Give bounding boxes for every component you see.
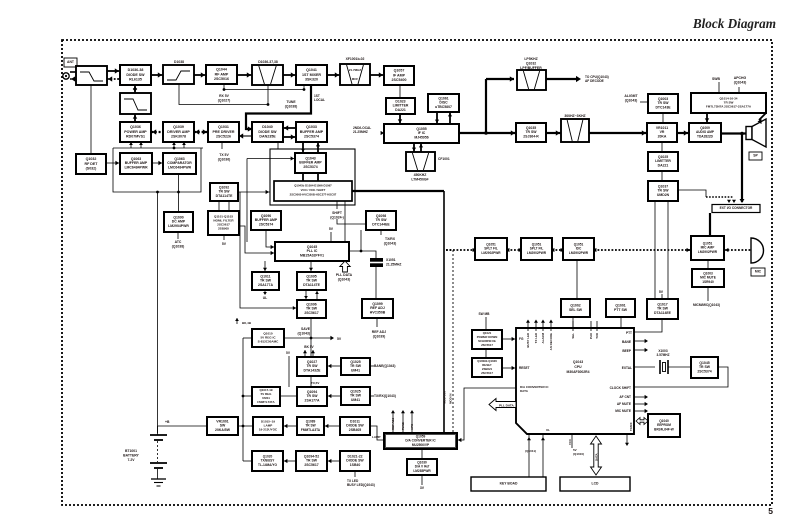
block buffer amp Q1033 — [296, 122, 327, 142]
arrow into mixer — [291, 72, 295, 77]
svg-text:TR SW: TR SW — [350, 364, 362, 368]
block tr sw Q1037 — [648, 181, 678, 201]
svg-text:1ST MIXER: 1ST MIXER — [302, 73, 321, 77]
arrow into ific left — [381, 131, 384, 135]
arrow aa1 — [473, 248, 476, 252]
arrow aa5 — [561, 248, 564, 252]
arrow a10 — [301, 149, 305, 152]
svg-text:VCO / VXO / SHIFT: VCO / VXO / SHIFT — [301, 188, 326, 192]
svg-text:7.2V: 7.2V — [128, 458, 136, 462]
arrow into q1031 — [239, 133, 243, 138]
antenna connector — [63, 73, 69, 79]
wire d1036-d1038 — [151, 74, 163, 76]
block tr sw Q1014-16-34 — [691, 93, 766, 113]
wire q1039-q1036 dotted — [194, 131, 208, 133]
wire 5v-pll — [330, 232, 332, 242]
block tr sw Q1096 — [297, 300, 326, 318]
svg-text:TR SW: TR SW — [306, 279, 318, 283]
label +B — [165, 420, 170, 424]
wire wide dn amp — [706, 113, 708, 123]
dac pin APC — [411, 412, 413, 433]
label 3V — [420, 486, 425, 490]
block 5v reg Q1010 — [252, 329, 284, 347]
wire mixer-mcf — [327, 74, 340, 76]
arrow a20 — [325, 424, 328, 428]
svg-text:Q1025: Q1025 — [350, 389, 360, 393]
block driver amp Q1039 — [163, 122, 194, 142]
svg-text:AN DECODE: AN DECODE — [549, 333, 553, 350]
wire q1089-d1011 — [324, 425, 340, 427]
svg-text:HVC350B: HVC350B — [370, 311, 386, 315]
svg-text:ALARM: ALARM — [541, 332, 545, 343]
wire affil-vr — [589, 132, 647, 134]
block volume VR1001 — [207, 417, 238, 435]
label TX/RX (Q1043) q1098 — [384, 237, 396, 245]
svg-text:1SB40: 1SB40 — [350, 463, 361, 467]
svg-text:450KHZ: 450KHZ — [414, 173, 427, 177]
wire q1021-cpu — [502, 338, 516, 340]
wire vcc dn — [571, 434, 573, 448]
svg-text:(S032): (S032) — [86, 166, 98, 170]
wire wideblock diag to speaker — [759, 113, 766, 120]
wire vref dn — [421, 475, 423, 485]
svg-text:SEL SW: SEL SW — [569, 308, 583, 312]
block diode sw D1036-38 — [120, 65, 151, 85]
block limiter Q1025 — [648, 152, 678, 171]
block tx/busy Q1020 — [252, 451, 283, 471]
svg-text:+B: +B — [165, 420, 170, 424]
svg-text:LM285PWR: LM285PWR — [413, 469, 431, 473]
svg-text:RL6135: RL6135 — [129, 77, 142, 81]
svg-text:Q1063: Q1063 — [131, 157, 141, 161]
svg-text:TL-14MA/YO: TL-14MA/YO — [258, 463, 277, 467]
svg-text:M30AF3002R4: M30AF3002R4 — [567, 370, 590, 374]
svg-text:DTC143E: DTC143E — [655, 106, 671, 110]
arrow diag — [758, 119, 762, 124]
wire bus-lamp — [243, 425, 253, 427]
svg-text:5: 5 — [768, 506, 773, 516]
wire vco out line — [352, 190, 444, 192]
svg-text:LM2904PWR: LM2904PWR — [168, 224, 189, 228]
arrow aa3 — [519, 248, 522, 252]
svg-text:LAMP: LAMP — [372, 435, 381, 439]
filter tuned filter D1036-37,38 — [252, 65, 283, 85]
label D/A CONVERTER IC DATA — [520, 385, 549, 393]
wire apchg dn — [738, 87, 740, 93]
wire vr-lim — [661, 142, 663, 152]
label UL cpu — [546, 428, 550, 432]
block tr sw Q1027 — [297, 357, 327, 376]
cpu pin BUSY LED — [527, 321, 529, 331]
arrow a30 — [576, 76, 581, 82]
svg-text:Q1045: Q1045 — [307, 245, 317, 249]
svg-text:LM2902PWR: LM2902PWR — [698, 250, 718, 254]
arrow a40 — [625, 443, 629, 446]
label SW MB — [479, 312, 491, 316]
label 2ND/LOCAL 21.25MHZ — [353, 126, 371, 134]
wire d1021 dn — [354, 471, 356, 477]
label PLL DATA (Q1043) — [336, 273, 353, 281]
label TX/RX(Q1043) — [374, 394, 396, 398]
svg-text:19-213UYOC: 19-213UYOC — [259, 428, 278, 432]
arrow a43 — [541, 437, 545, 440]
svg-text:LM2902PWR: LM2902PWR — [569, 251, 589, 255]
arrow a34 — [512, 337, 515, 341]
svg-text:TR SW: TR SW — [657, 307, 669, 311]
svg-text:Q1044: Q1044 — [216, 68, 227, 72]
svg-text:2SC5374: 2SC5374 — [304, 134, 319, 138]
wire vr-amp — [677, 132, 689, 134]
wire 5v-q1017 — [661, 294, 663, 299]
wire clockshift wire — [634, 367, 728, 387]
svg-text:TR SW: TR SW — [306, 394, 318, 398]
wire q1031-d1040 — [238, 135, 252, 137]
wire q1098 dn — [380, 230, 382, 235]
wire left to q1096 — [240, 192, 297, 308]
wire xtal-q1045 — [668, 366, 691, 368]
block mod filter Q1101-Q1103 — [208, 211, 239, 235]
arrow a32 — [642, 130, 646, 135]
label 5V q1017 — [659, 290, 664, 294]
svg-text:MJ45956: MJ45956 — [414, 136, 428, 140]
svg-text:LP5KHZ: LP5KHZ — [524, 57, 537, 61]
block split filter Q1051 b — [521, 238, 552, 260]
svg-text:Q1002: Q1002 — [570, 303, 580, 307]
filter af filter 300HZ-3KHZ — [561, 119, 589, 142]
svg-text:2SA177A: 2SA177A — [305, 399, 320, 403]
wire rx5v stub mixer — [303, 85, 305, 90]
arrow a4 — [195, 129, 199, 134]
label SWB — [712, 77, 721, 81]
block d/a v ref Q1030 — [407, 459, 437, 475]
svg-text:SP: SP — [753, 154, 758, 158]
wire dac-vref — [421, 449, 423, 459]
wire ant to lpf top — [70, 71, 76, 73]
arrow a44 — [645, 409, 648, 413]
wire 5v drop — [288, 356, 290, 387]
wire sp line down — [741, 134, 743, 203]
svg-text:LMC6484PWR: LMC6484PWR — [168, 166, 192, 170]
label SAVE (Q1043) — [298, 327, 311, 335]
label 5V q1010 — [337, 337, 342, 341]
wire q1025b-out — [370, 395, 374, 397]
svg-text:DIODE SW: DIODE SW — [258, 130, 277, 134]
wire rail loop — [113, 148, 201, 192]
svg-text:2SK3078: 2SK3078 — [171, 134, 186, 138]
label 5V (Q1010) — [573, 448, 584, 456]
svg-text:(Q1043): (Q1043) — [298, 331, 310, 335]
pll data block arrow — [340, 261, 350, 272]
block tr sw Q1017 — [647, 299, 678, 319]
wire d1040-q1033 a — [283, 127, 296, 129]
block idc Q1051 — [563, 238, 594, 260]
svg-text:S-812C50AMC: S-812C50AMC — [258, 340, 279, 344]
arrow a38 — [645, 395, 648, 399]
block rf amp Q1044 — [206, 65, 237, 84]
svg-text:MB15A02PFV1: MB15A02PFV1 — [300, 254, 324, 258]
arrow a15 — [271, 251, 274, 255]
wire pa rail — [113, 147, 203, 149]
svg-text:3V: 3V — [420, 486, 425, 490]
block split filter Q1051 a — [475, 238, 507, 260]
svg-text:AF CNT: AF CNT — [619, 395, 631, 399]
cpu pin AN DECODE — [550, 321, 552, 331]
block tr sw Q1094 — [297, 387, 327, 406]
svg-text:LOCAL: LOCAL — [314, 98, 325, 102]
svg-text:TX/RX: TX/RX — [629, 422, 633, 431]
svg-text:MOD IN: MOD IN — [449, 394, 453, 404]
wire q1001-cpu — [620, 317, 622, 328]
label ATC (Q1038) — [172, 240, 184, 248]
svg-text:D1023: D1023 — [395, 99, 405, 103]
wire tune stub trap — [267, 85, 269, 105]
svg-text:Q1001: Q1001 — [615, 303, 625, 307]
svg-text:DTA114TE: DTA114TE — [216, 194, 233, 198]
svg-text:Q1045b D1094-D1096-D1097: Q1045b D1094-D1096-D1097 — [294, 183, 332, 187]
svg-text:BANE: BANE — [622, 340, 631, 344]
wire lpf1 down to rfdet — [90, 85, 92, 154]
wire bus-q1020 — [243, 460, 252, 462]
wire ific-q1035 — [459, 132, 516, 134]
svg-text:Q1092: Q1092 — [219, 185, 229, 189]
svg-text:SAVE: SAVE — [301, 327, 311, 331]
label REF ADJ (Q1039) — [372, 330, 386, 338]
label MIC MUTE pin — [615, 409, 631, 413]
wire extal wire — [634, 366, 655, 368]
arrow a12 — [266, 190, 269, 194]
svg-text:TX/RX: TX/RX — [385, 237, 396, 241]
wire q1057-d1023 — [399, 85, 401, 98]
svg-text:ANT: ANT — [67, 60, 75, 64]
arrow aa7 — [687, 248, 690, 252]
wire cmp-dcamp vertical — [178, 174, 180, 212]
wire q1037-extio — [678, 190, 706, 197]
block sel sw Q1002 — [561, 299, 590, 317]
arrow aa4 — [551, 248, 554, 252]
label ALIGMT (Q1043) — [624, 94, 638, 102]
svg-text:Q1096: Q1096 — [306, 302, 316, 306]
svg-text:Q1031: Q1031 — [218, 125, 229, 129]
arrow a35 — [512, 366, 515, 370]
arrow a1 — [133, 86, 137, 90]
svg-text:TR SW: TR SW — [306, 364, 318, 368]
arrow into extio — [740, 199, 745, 203]
wire micmute wire — [634, 410, 646, 412]
wire ific up — [485, 79, 487, 133]
arrow a39 — [645, 402, 648, 406]
svg-text:RD07MVS1: RD07MVS1 — [126, 134, 145, 138]
arrow a14 — [271, 245, 274, 249]
svg-text:300HZ~3KHZ: 300HZ~3KHZ — [564, 114, 585, 118]
svg-text:COMPARATOR: COMPARATOR — [167, 161, 192, 165]
wire q1037 dn a — [654, 201, 656, 299]
svg-text:ALIGMT: ALIGMT — [624, 94, 638, 98]
svg-text:PTT: PTT — [626, 331, 632, 335]
block ptt sw Q1001 — [606, 299, 635, 317]
wire q1092-vco — [239, 191, 270, 193]
svg-text:DC AMP: DC AMP — [172, 220, 186, 224]
svg-text:PLL DATA: PLL DATA — [336, 273, 353, 277]
svg-text:3.57MHZ: 3.57MHZ — [656, 353, 669, 357]
block limiter D1023 — [386, 98, 415, 114]
arrow eio1 — [727, 200, 731, 203]
svg-text:TR SW: TR SW — [218, 190, 230, 194]
wire d1040-vco — [277, 142, 279, 149]
svg-text:LM2902PWR: LM2902PWR — [481, 251, 501, 255]
svg-text:DTA143ZE: DTA143ZE — [304, 369, 322, 373]
arrow a16 — [330, 336, 334, 340]
svg-text:DISC: DISC — [439, 101, 448, 105]
label EXTAL pin — [622, 366, 632, 370]
pll data block arrow cpu — [489, 399, 516, 411]
block tr sw Q1095 — [297, 272, 326, 290]
cpu pin ALARM — [542, 321, 544, 331]
wire rfdet-q1063 — [106, 162, 120, 164]
svg-text:RF AMP: RF AMP — [215, 72, 229, 76]
arrow eio2 — [732, 200, 736, 203]
block mic amp Q1051 — [691, 236, 724, 260]
svg-text:TX 5V: TX 5V — [219, 153, 229, 157]
VCO shield enclosure — [270, 149, 355, 205]
wire q1043 in drop — [246, 159, 248, 243]
svg-text:(Q1024-): (Q1024-) — [330, 215, 344, 219]
wire q1063-cmp — [152, 162, 163, 164]
label TUNE (Q1038) — [285, 100, 297, 108]
svg-text:Q1041: Q1041 — [306, 68, 317, 72]
svg-text:SEL: SEL — [571, 333, 575, 339]
arrow a9 — [158, 161, 162, 165]
svg-text:PHO: PHO — [589, 332, 593, 339]
svg-text:UM41: UM41 — [351, 369, 360, 373]
block tr sw Q1098 — [366, 211, 396, 230]
arrow aa2 — [506, 248, 509, 252]
svg-text:Q1035: Q1035 — [526, 126, 536, 130]
cpu pin TX LED — [535, 321, 537, 331]
crystal X1003 — [660, 360, 668, 374]
label SHIFT (Q1024-) — [330, 211, 344, 219]
svg-text:5V: 5V — [337, 337, 342, 341]
block ref adj Q1099 — [362, 299, 393, 318]
arrow into d1036 — [115, 68, 119, 73]
svg-text:KEY BOAD: KEY BOAD — [500, 482, 518, 486]
svg-text:MIC: MIC — [755, 270, 762, 274]
block diode sw D1040 — [252, 122, 283, 142]
svg-text:AF DECODE: AF DECODE — [585, 79, 604, 83]
svg-text:5V: 5V — [222, 242, 227, 246]
wire q1098 down to pll line — [360, 230, 362, 251]
block d/a converter Q1059 — [384, 433, 457, 449]
arrow into d1038 — [158, 72, 162, 77]
dac pin TUNE — [402, 412, 404, 433]
svg-text:FG: FG — [519, 337, 524, 341]
svg-text:SW MB: SW MB — [479, 312, 491, 316]
wire battery drop — [157, 192, 159, 433]
wire q1020-q1094b — [283, 460, 296, 462]
svg-text:DTA114EE: DTA114EE — [654, 311, 672, 315]
svg-text:SW: SW — [220, 424, 226, 428]
svg-text:D1036-37,38: D1036-37,38 — [258, 60, 278, 64]
arrow a24 — [435, 120, 439, 123]
svg-text:3SK320: 3SK320 — [305, 77, 318, 81]
wire bus — [242, 338, 244, 461]
wire refadj dn — [376, 318, 378, 327]
svg-text:RESET: RESET — [519, 366, 530, 370]
svg-text:LM2902PWR: LM2902PWR — [527, 251, 547, 255]
svg-text:Q1027: Q1027 — [307, 360, 317, 364]
svg-text:PLL IC: PLL IC — [307, 249, 318, 253]
arrow aa8 — [725, 248, 728, 252]
wire pll-xtal — [349, 251, 376, 259]
wire vco-pll fb — [344, 201, 346, 242]
svg-text:DA221: DA221 — [395, 108, 406, 112]
svg-text:DTC144EE: DTC144EE — [372, 223, 390, 227]
label BANE(Q1043) — [374, 364, 395, 368]
svg-text:TR SW: TR SW — [375, 218, 387, 222]
arrow a3 — [133, 115, 137, 119]
arrow a29 — [510, 76, 514, 81]
wire q1101-pll — [239, 226, 275, 253]
svg-text:Q1099: Q1099 — [372, 302, 382, 306]
svg-text:TR SW: TR SW — [525, 130, 537, 134]
svg-text:RX 5V: RX 5V — [219, 94, 230, 98]
svg-text:Q1037: Q1037 — [658, 184, 668, 188]
svg-text:D1021-22: D1021-22 — [347, 454, 362, 458]
block pre driver Q1031 — [208, 122, 239, 142]
svg-text:BT1001: BT1001 — [125, 449, 137, 453]
wire d1023-ific — [399, 114, 401, 124]
svg-text:(Q1010): (Q1010) — [573, 452, 584, 456]
svg-text:(Q1043): (Q1043) — [625, 98, 638, 102]
svg-text:2SJ364-R: 2SJ364-R — [523, 135, 539, 139]
svg-text:LTM450GF: LTM450GF — [411, 177, 428, 181]
arrow a42 — [527, 437, 531, 440]
svg-text:(Q1038): (Q1038) — [172, 244, 184, 248]
wire kb-cpu b — [542, 434, 544, 477]
svg-text:BATTERY: BATTERY — [123, 453, 139, 457]
arrow bk5v b — [311, 350, 315, 353]
svg-text:20KA/5W: 20KA/5W — [215, 428, 231, 432]
wire d1011-dac — [370, 426, 384, 440]
wire d1038-q1044 — [194, 74, 206, 76]
svg-text:Q1036: Q1036 — [130, 125, 141, 129]
svg-text:Q1045: Q1045 — [699, 361, 709, 365]
wire q1044-trap — [237, 74, 252, 76]
wire extio-micamp — [709, 213, 711, 236]
arrow into lpf1 — [76, 69, 80, 74]
svg-text:D1038: D1038 — [174, 60, 184, 64]
wire swb dn — [718, 82, 720, 93]
label LP5KHZ Q1032 LPF/BUFFER — [520, 57, 542, 70]
svg-text:MOD OUT: MOD OUT — [442, 390, 446, 404]
wire shift stub — [336, 201, 338, 209]
svg-text:DTA114TE: DTA114TE — [303, 283, 320, 287]
svg-text:MIC MUTE: MIC MUTE — [615, 409, 631, 413]
label RESET pin — [519, 366, 530, 370]
ground — [151, 479, 166, 486]
svg-text:MCF: MCF — [352, 77, 359, 81]
wire pll-q1011 — [264, 261, 266, 272]
wire af dotted main — [446, 249, 475, 251]
svg-text:Q1043: Q1043 — [305, 156, 315, 160]
filter TX LPF — [120, 93, 151, 114]
svg-text:TR SW: TR SW — [260, 279, 272, 283]
svg-text:D1011: D1011 — [350, 419, 360, 423]
arrow into d1040 left — [248, 126, 252, 131]
svg-text:TUNE: TUNE — [286, 100, 296, 104]
svg-text:BUFFER AMP: BUFFER AMP — [299, 161, 322, 165]
wire ific-cf a — [413, 143, 415, 152]
block audio amp Q1009 — [689, 123, 721, 142]
